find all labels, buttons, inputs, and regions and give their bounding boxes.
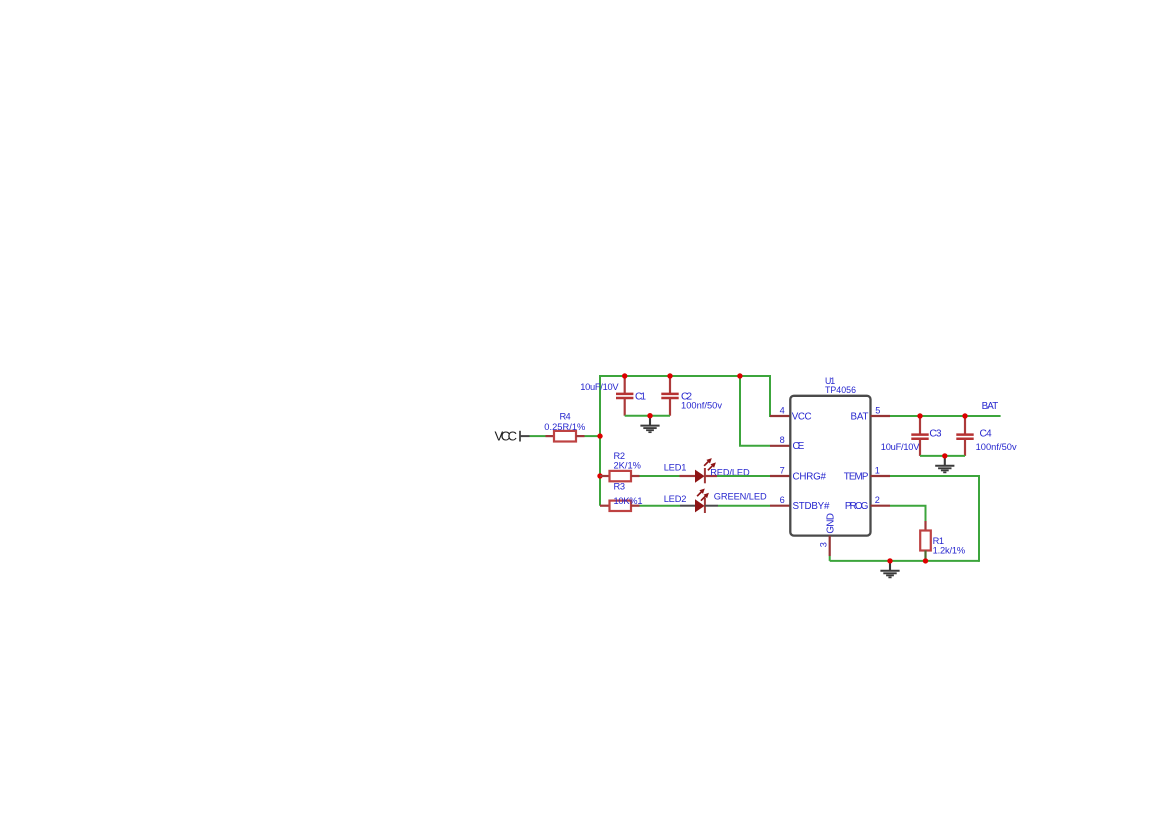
- wire BAT net: [890, 415, 1001, 417]
- wire VCC to R4: [530, 435, 546, 437]
- LED1 diode: [680, 468, 718, 483]
- capacitor C2: [661, 376, 678, 416]
- pin 3 stub: [829, 536, 831, 561]
- wire TEMP loop: [890, 476, 979, 561]
- ground under C3/C4: [935, 457, 954, 473]
- svg-text:100nf/50v: 100nf/50v: [681, 401, 722, 411]
- svg-text:R2: R2: [614, 451, 626, 461]
- wire C3-C4 bottom: [920, 455, 965, 457]
- LED2 arrows: [697, 489, 709, 501]
- pin 7 stub: [770, 475, 791, 477]
- svg-text:C3: C3: [929, 428, 942, 439]
- svg-text:3: 3: [819, 542, 829, 547]
- wire PROG to R1: [890, 506, 926, 521]
- svg-text:STDBY#: STDBY#: [793, 501, 830, 512]
- junction bottom rail / ground: [887, 558, 892, 563]
- LED2 diode: [680, 498, 718, 513]
- junction top rail / CE branch: [737, 373, 742, 378]
- junction C bottom / ground: [647, 413, 652, 418]
- svg-text:0.25R/1%: 0.25R/1%: [544, 422, 585, 432]
- svg-text:TEMP: TEMP: [844, 471, 869, 482]
- svg-text:8: 8: [780, 435, 785, 445]
- svg-text:R1: R1: [933, 536, 945, 546]
- wire R4 to main rail: [585, 435, 601, 437]
- svg-text:C1: C1: [635, 392, 646, 403]
- svg-text:1: 1: [875, 465, 880, 475]
- svg-text:R4: R4: [560, 411, 571, 421]
- wire R2 to LED1: [640, 475, 680, 477]
- svg-text:CE: CE: [793, 441, 805, 452]
- svg-text:VCC: VCC: [495, 428, 518, 443]
- pin 8 stub: [770, 445, 791, 447]
- pin 2 stub: [871, 505, 891, 507]
- wire C1-C2 bottom: [625, 415, 670, 417]
- op IC U1 body: [790, 396, 870, 536]
- svg-text:CHRG#: CHRG#: [793, 471, 827, 482]
- svg-text:100nf/50v: 100nf/50v: [976, 442, 1017, 452]
- svg-text:GND: GND: [826, 513, 837, 534]
- svg-text:4: 4: [780, 405, 785, 415]
- ground under C1/C2: [640, 417, 659, 433]
- svg-text:10uF/10V: 10uF/10V: [580, 382, 619, 392]
- svg-text:PROG: PROG: [845, 501, 869, 512]
- junction main rail / R2: [597, 473, 602, 478]
- svg-text:10K%1: 10K%1: [614, 496, 643, 506]
- svg-text:C4: C4: [980, 428, 993, 439]
- svg-text:2: 2: [875, 495, 880, 505]
- junction top rail / C2: [667, 373, 672, 378]
- wire bottom rail: [830, 560, 979, 562]
- junction C3C4 bottom / ground: [942, 453, 947, 458]
- svg-text:7: 7: [780, 465, 785, 475]
- resistor R2: [600, 471, 640, 481]
- ground bottom rail: [880, 562, 899, 578]
- pin 5 stub: [871, 415, 891, 417]
- capacitor C3: [911, 416, 928, 456]
- junction bottom rail / R1: [923, 558, 928, 563]
- wire CE branch: [740, 376, 770, 446]
- svg-text:VCC: VCC: [792, 411, 812, 422]
- pin 6 stub: [770, 505, 791, 507]
- junction BAT / C4: [962, 413, 967, 418]
- wire top rail: [599, 375, 770, 377]
- svg-text:10uF/10V: 10uF/10V: [881, 442, 920, 452]
- svg-text:1.2k/1%: 1.2k/1%: [933, 546, 966, 556]
- wire down to pin4: [770, 375, 771, 416]
- capacitor C4: [956, 416, 973, 456]
- junction main rail / R4: [597, 433, 602, 438]
- capacitor C1: [616, 376, 633, 416]
- svg-text:TP4056: TP4056: [825, 385, 856, 395]
- svg-text:2K/1%: 2K/1%: [614, 461, 641, 471]
- LED1 arrows: [704, 458, 716, 470]
- resistor R3: [600, 501, 640, 511]
- resistor R4: [546, 431, 585, 442]
- resistor R1: [920, 521, 931, 561]
- junction BAT / C3: [917, 413, 922, 418]
- svg-text:R3: R3: [614, 481, 626, 491]
- svg-text:LED1: LED1: [664, 462, 687, 472]
- svg-text:GREEN/LED: GREEN/LED: [714, 491, 767, 501]
- port VCC: [495, 428, 530, 443]
- wire main vertical rail: [599, 376, 601, 506]
- junction top rail / C1: [622, 373, 627, 378]
- wire LED2 to pin6: [718, 505, 770, 507]
- svg-text:5: 5: [875, 405, 880, 415]
- wire R3 to LED2: [640, 505, 681, 507]
- svg-text:BAT: BAT: [982, 401, 999, 412]
- svg-text:LED2: LED2: [664, 494, 687, 504]
- svg-text:BAT: BAT: [851, 411, 869, 422]
- wire LED1 to pin7: [717, 475, 770, 477]
- pin 1 stub: [871, 475, 891, 477]
- pin 4 stub: [770, 415, 791, 417]
- svg-text:6: 6: [780, 495, 785, 505]
